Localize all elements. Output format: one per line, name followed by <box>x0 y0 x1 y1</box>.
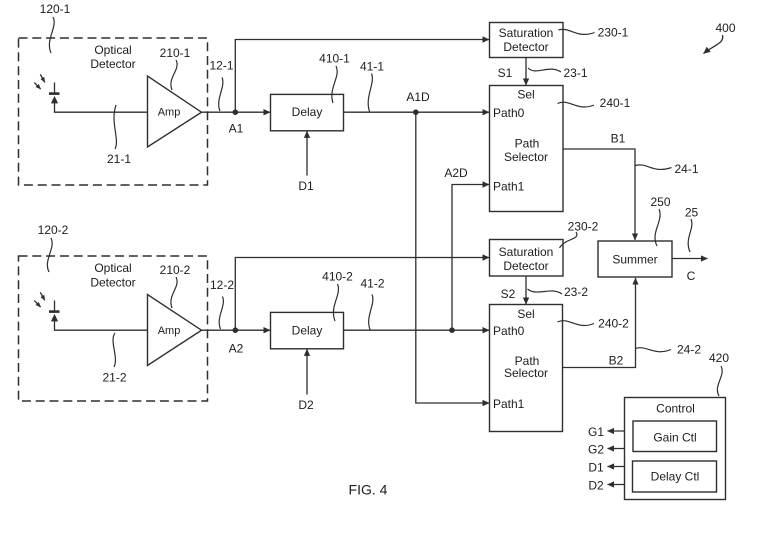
leader 230-1 <box>559 29 595 34</box>
svg-text:Path0: Path0 <box>493 324 525 338</box>
wire node A1 to saturation detector 230-1 <box>235 40 489 113</box>
wire B1 path selector 240-1 to summer <box>563 149 635 240</box>
svg-text:Detector: Detector <box>503 40 548 54</box>
svg-text:Detector: Detector <box>90 276 135 290</box>
svg-text:24-1: 24-1 <box>674 162 698 176</box>
wire photodiode 21-1 to amplifier <box>55 111 148 113</box>
svg-text:B2: B2 <box>609 354 624 368</box>
leader 24-2 <box>636 348 672 352</box>
amplifier Amp 210-1 <box>148 76 202 147</box>
svg-text:Delay: Delay <box>292 324 323 338</box>
optical detector block 120-2 (dashed box) <box>19 256 208 401</box>
delay block 410-2 <box>271 312 344 348</box>
leader 25 <box>688 219 692 252</box>
svg-text:25: 25 <box>685 206 699 220</box>
amplifier Amp 210-2 <box>148 295 202 366</box>
wire D2 input to delay 410-2 <box>306 349 308 394</box>
svg-text:D1: D1 <box>588 461 604 475</box>
svg-text:Saturation: Saturation <box>499 26 554 40</box>
svg-text:12-2: 12-2 <box>210 278 234 292</box>
svg-text:410-1: 410-1 <box>319 52 350 66</box>
svg-text:230-2: 230-2 <box>568 220 599 234</box>
node A2D <box>449 327 455 333</box>
svg-text:Sel: Sel <box>517 88 534 102</box>
svg-text:Detector: Detector <box>90 57 135 71</box>
wire G2 output of control <box>608 448 625 450</box>
leader 230-2 <box>560 232 577 248</box>
svg-text:Selector: Selector <box>504 150 548 164</box>
svg-text:Path1: Path1 <box>493 180 525 194</box>
svg-text:A2D: A2D <box>444 166 468 180</box>
leader 210-2 <box>171 277 177 308</box>
svg-text:120-2: 120-2 <box>38 223 69 237</box>
leader 250 <box>655 209 660 246</box>
wire amplifier 210-1 to delay 410-1 <box>202 111 271 113</box>
wire node A2D to path selector 240-1 Path1 <box>452 185 489 331</box>
svg-text:Path0: Path0 <box>493 106 525 120</box>
svg-text:S2: S2 <box>501 287 516 301</box>
svg-text:Delay Ctl: Delay Ctl <box>651 470 700 484</box>
svg-text:S1: S1 <box>498 66 513 80</box>
delay control block <box>633 461 717 492</box>
svg-text:D2: D2 <box>588 479 604 493</box>
svg-text:A1: A1 <box>229 122 244 136</box>
node A1 <box>233 109 239 115</box>
svg-text:G1: G1 <box>588 425 604 439</box>
svg-text:Path: Path <box>515 137 540 151</box>
wire B2 path selector 240-2 to summer <box>563 278 636 368</box>
arrow 400 <box>704 35 723 54</box>
wire node A1D to path selector 240-2 Path1 <box>416 112 489 403</box>
svg-text:Summer: Summer <box>612 253 657 267</box>
wire D1 output of control <box>608 466 625 468</box>
svg-text:120-1: 120-1 <box>40 2 71 16</box>
svg-text:230-1: 230-1 <box>598 26 629 40</box>
wire node A2 to saturation detector 230-2 <box>235 258 489 331</box>
saturation detector 230-2 <box>490 240 564 277</box>
path selector 240-1 <box>490 86 564 212</box>
svg-text:C: C <box>687 269 696 283</box>
leader 21-2 <box>113 333 115 367</box>
svg-text:410-2: 410-2 <box>322 270 353 284</box>
svg-text:240-2: 240-2 <box>598 317 629 331</box>
svg-text:41-2: 41-2 <box>360 277 384 291</box>
wire amplifier 210-2 to delay 410-2 <box>202 329 271 331</box>
leader 210-1 <box>171 60 177 90</box>
leader 410-2 <box>333 284 338 321</box>
wire D1 input to delay 410-1 <box>306 131 308 175</box>
svg-text:21-2: 21-2 <box>102 371 126 385</box>
optical detector block 120-1 (dashed box) <box>19 38 208 185</box>
leader 420 <box>717 366 722 396</box>
path selector 240-2 <box>490 305 563 432</box>
svg-text:A2: A2 <box>229 342 244 356</box>
svg-text:Sel: Sel <box>517 307 534 321</box>
svg-text:Control: Control <box>656 402 695 416</box>
leader 41-1 <box>368 74 372 112</box>
svg-text:FIG. 4: FIG. 4 <box>349 482 388 498</box>
photodiode 21-1 <box>49 83 60 113</box>
wire delay 410-2 to path selector Path0 <box>344 329 489 331</box>
svg-text:Amp: Amp <box>158 325 181 337</box>
leader 23-1 <box>528 68 561 72</box>
wire output C from summer <box>672 258 708 260</box>
svg-text:12-1: 12-1 <box>209 59 233 73</box>
node A1D <box>413 109 419 115</box>
svg-text:Optical: Optical <box>94 43 131 57</box>
gain control block <box>633 421 717 452</box>
svg-text:23-1: 23-1 <box>563 66 587 80</box>
svg-text:Detector: Detector <box>503 259 548 273</box>
svg-text:210-1: 210-1 <box>160 46 191 60</box>
svg-text:G2: G2 <box>588 443 604 457</box>
svg-text:Delay: Delay <box>292 105 323 119</box>
leader 240-1 <box>558 102 595 107</box>
svg-text:Optical: Optical <box>94 261 131 275</box>
leader 240-2 <box>558 321 595 326</box>
svg-text:24-2: 24-2 <box>677 343 701 357</box>
svg-text:D1: D1 <box>298 179 314 193</box>
wire S2 saturation detector to path selector Sel <box>525 276 527 304</box>
svg-text:Selector: Selector <box>504 366 548 380</box>
leader 41-2 <box>369 295 373 330</box>
leader 24-1 <box>636 165 672 170</box>
svg-text:250: 250 <box>650 195 670 209</box>
leader 23-2 <box>528 289 563 294</box>
node A2 <box>233 327 239 333</box>
wire photodiode 21-2 to amplifier <box>55 329 148 331</box>
leader 21-1 <box>114 105 116 149</box>
light arrow 1 into photodiode 21-1 <box>40 74 45 82</box>
svg-text:21-1: 21-1 <box>107 152 131 166</box>
svg-text:Gain Ctl: Gain Ctl <box>653 431 696 445</box>
svg-text:420: 420 <box>709 351 729 365</box>
saturation detector 230-1 <box>490 23 564 58</box>
light arrow 1 into photodiode 21-2 <box>40 292 45 300</box>
svg-text:Amp: Amp <box>158 107 181 119</box>
svg-text:240-1: 240-1 <box>600 96 631 110</box>
svg-text:Path1: Path1 <box>493 397 525 411</box>
wire S1 saturation detector to path selector Sel <box>525 58 527 86</box>
light arrow 2 into photodiode 21-1 <box>34 83 40 89</box>
light arrow 2 into photodiode 21-2 <box>34 301 40 307</box>
leader 12-1 <box>219 78 223 112</box>
svg-text:B1: B1 <box>611 132 626 146</box>
svg-text:Saturation: Saturation <box>499 245 554 259</box>
svg-text:41-1: 41-1 <box>360 60 384 74</box>
leader 12-2 <box>219 297 223 330</box>
svg-text:A1D: A1D <box>406 90 430 104</box>
svg-text:23-2: 23-2 <box>564 285 588 299</box>
leader 120-1 <box>49 17 54 53</box>
svg-text:210-2: 210-2 <box>160 263 191 277</box>
wire G1 output of control <box>608 430 625 432</box>
wire D2 output of control <box>608 484 625 486</box>
svg-text:400: 400 <box>715 21 735 35</box>
wire delay 410-1 to path selector Path0 <box>344 111 489 113</box>
control block 420 <box>625 398 726 500</box>
photodiode 21-2 <box>49 301 60 331</box>
delay block 410-1 <box>271 94 344 130</box>
svg-text:D2: D2 <box>298 398 314 412</box>
leader 410-1 <box>332 66 337 103</box>
leader 120-2 <box>47 238 52 272</box>
summer 250 <box>598 241 672 277</box>
